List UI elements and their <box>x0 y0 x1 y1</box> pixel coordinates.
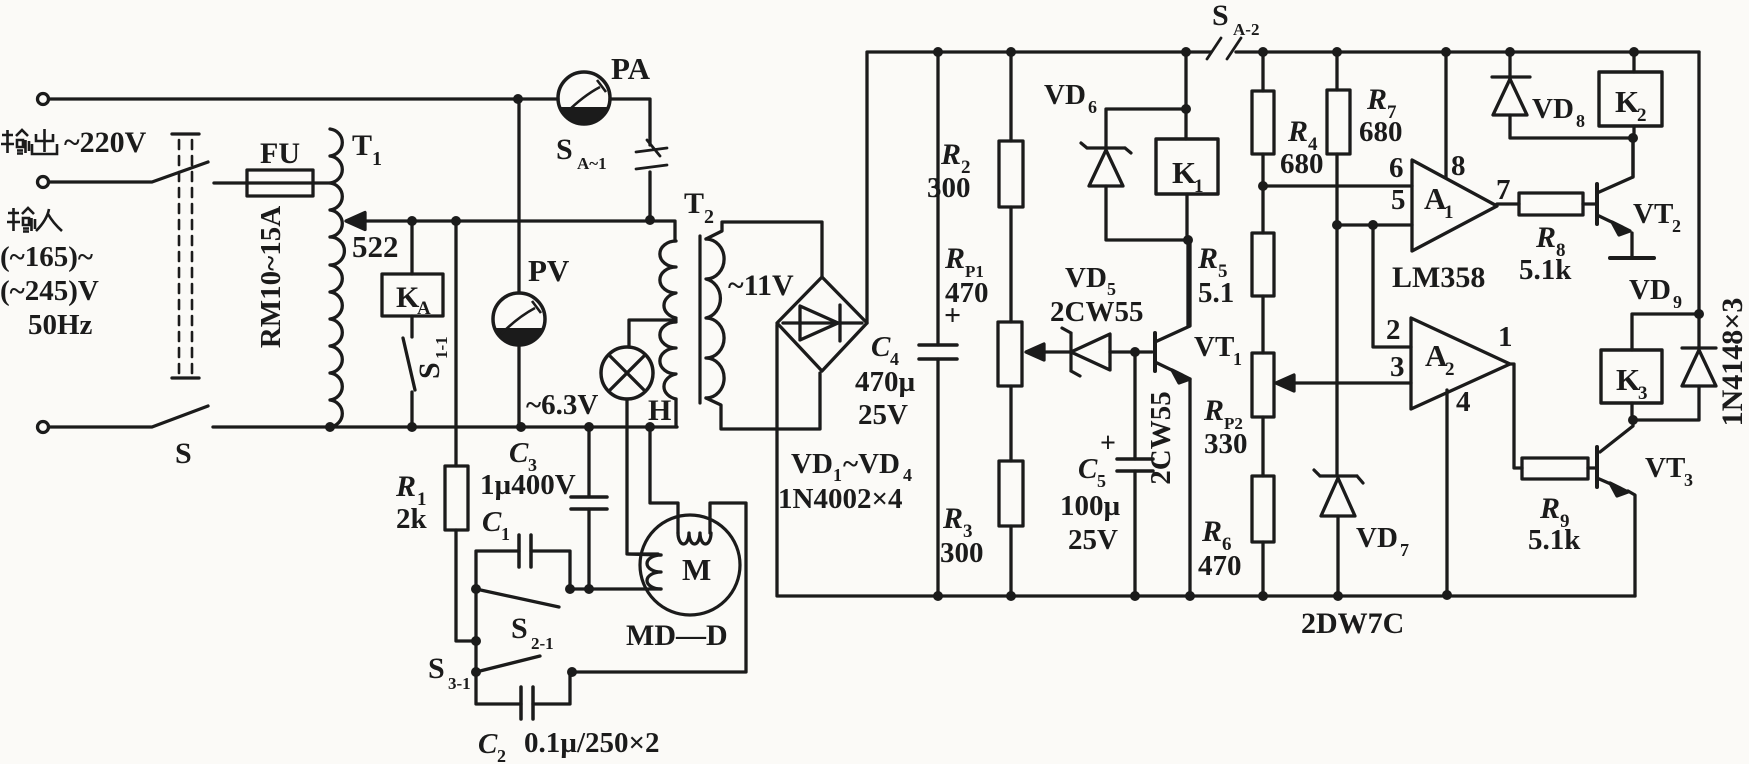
svg-text:~220V: ~220V <box>64 126 147 159</box>
svg-text:S: S <box>428 652 445 685</box>
svg-text:2: 2 <box>704 206 714 228</box>
svg-text:A: A <box>417 298 431 319</box>
svg-text:VT: VT <box>1633 198 1673 230</box>
svg-text:680: 680 <box>1280 148 1324 180</box>
svg-text:R: R <box>1197 242 1218 275</box>
svg-text:300: 300 <box>940 537 984 569</box>
svg-text:5: 5 <box>1391 184 1406 216</box>
svg-text:470: 470 <box>945 277 989 309</box>
svg-text:C: C <box>478 728 498 760</box>
svg-text:H: H <box>648 394 671 427</box>
svg-text:1N4002×4: 1N4002×4 <box>778 483 902 515</box>
svg-text:9: 9 <box>1673 292 1682 312</box>
svg-text:K: K <box>1615 84 1639 119</box>
svg-text:R: R <box>1203 394 1224 427</box>
svg-text:A-2: A-2 <box>1233 20 1259 39</box>
svg-text:VD: VD <box>1629 274 1671 306</box>
svg-text:C: C <box>509 437 529 469</box>
svg-text:2: 2 <box>497 746 506 764</box>
svg-text:S: S <box>556 133 573 166</box>
svg-text:FU: FU <box>260 137 300 170</box>
svg-text:A~1: A~1 <box>577 154 607 173</box>
svg-text:2: 2 <box>1445 359 1455 380</box>
svg-text:1: 1 <box>1444 202 1454 223</box>
svg-text:3: 3 <box>1684 470 1693 490</box>
svg-text:8: 8 <box>1451 150 1466 182</box>
svg-text:1: 1 <box>501 524 510 544</box>
svg-text:3-1: 3-1 <box>448 674 471 693</box>
svg-text:1: 1 <box>372 148 382 170</box>
svg-text:RM10~15A: RM10~15A <box>255 206 287 348</box>
svg-text:VT: VT <box>1194 331 1234 363</box>
svg-text:330: 330 <box>1204 428 1248 460</box>
svg-text:VT: VT <box>1645 452 1685 484</box>
svg-text:5: 5 <box>1097 471 1106 491</box>
svg-text:R: R <box>1366 83 1387 116</box>
svg-text:2-1: 2-1 <box>531 634 554 653</box>
svg-text:MD—D: MD—D <box>626 619 728 652</box>
svg-text:6: 6 <box>1088 97 1097 117</box>
svg-text:S: S <box>1212 0 1229 32</box>
svg-text:~VD: ~VD <box>843 448 900 480</box>
svg-text:PV: PV <box>528 253 570 288</box>
svg-text:6: 6 <box>1389 152 1404 184</box>
svg-text:300: 300 <box>927 172 971 204</box>
svg-text:R: R <box>1535 221 1556 254</box>
svg-text:680: 680 <box>1359 116 1403 148</box>
svg-text:5.1k: 5.1k <box>1528 524 1581 556</box>
svg-text:VD: VD <box>1532 93 1574 125</box>
svg-text:0.1µ/250×2: 0.1µ/250×2 <box>524 727 660 759</box>
svg-text:VD: VD <box>1065 262 1107 294</box>
svg-text:~6.3V: ~6.3V <box>526 389 598 421</box>
svg-text:PA: PA <box>611 51 651 86</box>
svg-text:3: 3 <box>1390 351 1405 383</box>
svg-text:~11V: ~11V <box>728 269 794 302</box>
svg-text:4: 4 <box>1456 386 1471 418</box>
svg-text:3: 3 <box>1638 383 1648 404</box>
svg-text:2: 2 <box>1672 216 1681 236</box>
svg-text:1: 1 <box>1194 176 1204 197</box>
svg-text:S: S <box>511 612 528 645</box>
svg-text:S: S <box>175 437 192 470</box>
svg-text:R: R <box>940 138 961 171</box>
svg-text:(~165)~: (~165)~ <box>0 241 93 273</box>
svg-text:5.1k: 5.1k <box>1519 254 1572 286</box>
svg-text:R: R <box>942 502 963 535</box>
svg-text:T: T <box>684 187 704 220</box>
svg-text:R: R <box>1201 515 1222 548</box>
svg-text:M: M <box>682 552 711 587</box>
svg-text:LM358: LM358 <box>1392 261 1485 294</box>
svg-text:4: 4 <box>903 465 912 485</box>
svg-text:VD: VD <box>1356 522 1398 554</box>
svg-text:7: 7 <box>1400 540 1409 560</box>
svg-text:2: 2 <box>1386 314 1401 346</box>
svg-text:522: 522 <box>352 229 399 264</box>
svg-text:1N4148×3: 1N4148×3 <box>1716 298 1749 427</box>
svg-text:S: S <box>413 362 446 379</box>
svg-text:C: C <box>1078 453 1098 485</box>
svg-text:+: + <box>1100 428 1116 459</box>
svg-text:470µ: 470µ <box>855 366 916 398</box>
svg-text:2k: 2k <box>396 503 428 535</box>
svg-text:2DW7C: 2DW7C <box>1301 607 1404 640</box>
svg-text:2CW55: 2CW55 <box>1050 296 1143 328</box>
svg-text:R: R <box>1287 115 1308 148</box>
svg-text:K: K <box>1616 362 1640 397</box>
svg-text:1-1: 1-1 <box>432 336 451 359</box>
svg-text:(~245)V: (~245)V <box>0 275 99 307</box>
svg-text:VD: VD <box>1044 79 1086 111</box>
svg-text:5.1: 5.1 <box>1198 277 1234 309</box>
svg-text:R: R <box>944 242 965 275</box>
svg-text:R: R <box>1539 492 1560 525</box>
svg-text:1: 1 <box>833 465 842 485</box>
svg-text:2CW55: 2CW55 <box>1145 391 1177 484</box>
svg-text:K: K <box>1172 155 1196 190</box>
svg-text:25V: 25V <box>858 399 908 431</box>
svg-text:1: 1 <box>1498 321 1513 353</box>
svg-text:50Hz: 50Hz <box>28 309 93 341</box>
svg-text:2: 2 <box>1637 105 1647 126</box>
svg-text:7: 7 <box>1496 174 1511 206</box>
svg-text:C: C <box>482 506 502 538</box>
svg-text:25V: 25V <box>1068 524 1118 556</box>
svg-text:VD: VD <box>791 448 833 480</box>
svg-text:470: 470 <box>1198 550 1242 582</box>
svg-text:C: C <box>871 331 891 363</box>
svg-text:8: 8 <box>1576 111 1585 131</box>
svg-text:R: R <box>395 470 416 503</box>
svg-text:100µ: 100µ <box>1060 490 1121 522</box>
svg-text:1: 1 <box>1233 349 1242 369</box>
svg-text:1µ400V: 1µ400V <box>480 469 576 501</box>
svg-text:T: T <box>352 129 372 162</box>
